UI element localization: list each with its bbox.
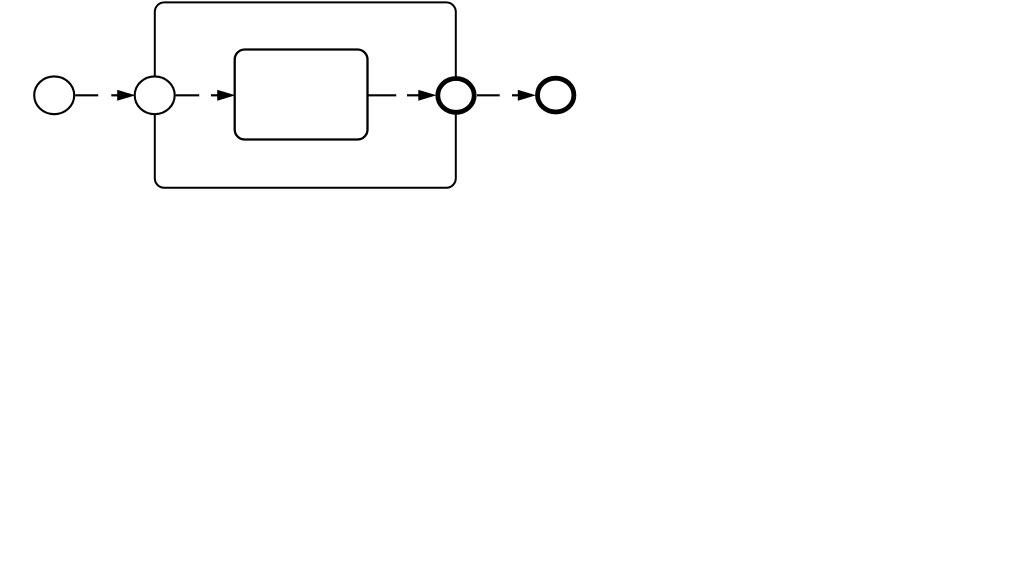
subprocess container [155,2,456,187]
wire: task to inner end event (segment) [368,94,396,96]
wire: start event to boundary event (stub) [111,94,119,96]
arrowhead into boundary event [118,91,134,101]
inner end event circle (thick) [438,79,474,113]
wire: inner end event to final end event (stub) [512,94,519,96]
start event circle [34,76,74,114]
arrowhead into final end event [518,91,534,101]
wire: start event to boundary event (segment) [75,94,98,96]
arrowhead into inner end event [419,91,435,101]
wire: boundary event to task (stub) [211,94,219,96]
arrowhead into task [218,91,234,101]
task box [235,50,368,140]
wire: task to inner end event (stub) [407,94,419,96]
wire: inner end event to final end event (segment) [477,94,500,96]
boundary event circle [135,76,175,114]
wire: boundary event to task (segment) [176,94,200,96]
final end event circle (thick) [538,78,574,112]
